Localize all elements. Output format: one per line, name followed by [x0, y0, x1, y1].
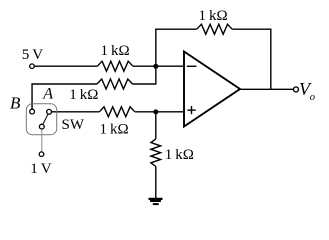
resistor R1 1 kOhm (top input row) [97, 61, 132, 71]
source terminal 5 V [30, 64, 35, 69]
wire R3 to op-amp non-inverting input [135, 111, 184, 113]
svg-text:A: A [42, 86, 53, 103]
wire R2 to inverting node [133, 66, 156, 84]
wire R1 to op-amp inverting input [133, 65, 184, 67]
wire Rg to ground [155, 167, 157, 199]
node at non-inverting input [153, 109, 158, 114]
node at inverting input [153, 64, 158, 69]
wire feedback up-left [156, 29, 197, 66]
resistor Rg 1 kOhm (to ground, vertical) [151, 139, 161, 167]
resistor R2 1 kOhm (from B) [97, 79, 133, 89]
svg-text:1 kΩ: 1 kΩ [69, 87, 98, 103]
svg-text:B: B [10, 93, 21, 112]
output terminal Vo [294, 87, 299, 92]
svg-text:1 kΩ: 1 kΩ [100, 121, 129, 137]
wire from 5V terminal to R1 [34, 65, 97, 67]
op-amp plus sign [187, 109, 195, 111]
switch common pole [39, 124, 44, 129]
svg-text:1 kΩ: 1 kΩ [101, 43, 130, 59]
switch terminal A [47, 109, 52, 114]
resistor R3 1 kOhm (from A) [99, 107, 135, 117]
source terminal 1 V [39, 152, 44, 157]
svg-text:1 V: 1 V [30, 161, 52, 177]
ground [149, 199, 163, 204]
switch SW enclosure box [26, 104, 56, 135]
op-amp minus sign [187, 65, 197, 67]
svg-text:o: o [310, 92, 315, 103]
svg-text:SW: SW [62, 117, 85, 133]
wire op-amp output [240, 88, 294, 90]
wire common pole to 1V terminal [41, 130, 43, 152]
switch lever (to A) [43, 114, 48, 124]
svg-text:1 kΩ: 1 kΩ [165, 147, 194, 163]
wire node down to Rg [155, 112, 157, 139]
switch terminal B [30, 109, 35, 114]
resistor Rf 1 kOhm (feedback) [197, 24, 233, 34]
op-amp U1 [184, 52, 240, 127]
svg-text:5 V: 5 V [22, 47, 44, 63]
wire from switch A to R3 [51, 111, 99, 113]
wire from switch B up and right to R2 [32, 84, 97, 109]
svg-text:1 kΩ: 1 kΩ [199, 8, 228, 24]
wire feedback right side down to output [232, 29, 271, 89]
